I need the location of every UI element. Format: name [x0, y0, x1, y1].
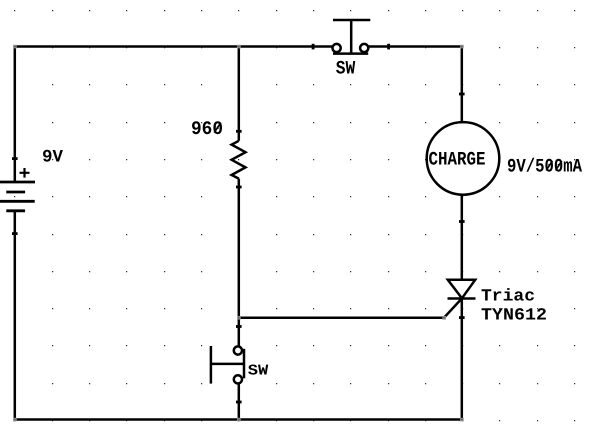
svg-text:9V/500mA: 9V/500mA	[507, 156, 582, 178]
svg-text:9V: 9V	[42, 148, 63, 168]
svg-text:CHARGE: CHARGE	[429, 149, 486, 171]
svg-text:Triac: Triac	[481, 288, 535, 307]
svg-text:SW: SW	[336, 58, 356, 80]
svg-text:960: 960	[191, 118, 223, 140]
svg-text:SW: SW	[248, 363, 269, 380]
svg-text:TYN612: TYN612	[481, 307, 547, 326]
